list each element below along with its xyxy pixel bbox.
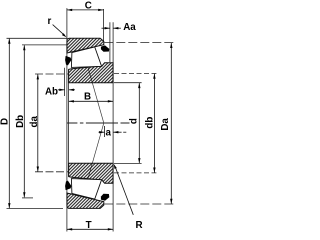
dim Aa (102, 27, 110, 29)
wire: vertical extension line cone front face (Ab/B) (68, 70, 70, 176)
cup upper (outer ring) (67, 38, 104, 53)
wire: Da bottom extension (dash) (104, 203, 173, 205)
wire: D top extension (7, 37, 67, 39)
wire: da top extension (dash) (35, 73, 68, 75)
dim r leader (53, 25, 65, 36)
svg-text:Da: Da (160, 118, 171, 131)
dim B (69, 100, 114, 102)
dim Ab (58, 89, 65, 91)
dim T (67, 228, 113, 230)
svg-text:D: D (0, 118, 11, 125)
cage lower right (black) (101, 194, 109, 201)
wire: db top extension (dash) (114, 72, 156, 74)
svg-text:Aa: Aa (123, 22, 136, 33)
wire: load line upper (83, 49, 104, 123)
dim R leader (115, 167, 133, 215)
wire: d top extension (114, 82, 142, 84)
dim D (8, 39, 10, 209)
roller upper (71, 47, 101, 68)
wire: vertical extension line cup back face / C,T reference (66, 8, 68, 231)
wire: vertical extension line cup front face (C right) (103, 9, 105, 41)
wire: Db top extension (22, 44, 67, 46)
svg-text:B: B (84, 91, 91, 102)
svg-text:T: T (86, 220, 92, 231)
svg-text:r: r (47, 16, 51, 27)
wire: db bottom extension (dash) (114, 172, 156, 174)
cage lower left (black) (65, 181, 71, 191)
cage upper left (black) (65, 56, 71, 66)
svg-text:Ab: Ab (45, 87, 58, 98)
cone upper (inner ring) (69, 63, 114, 83)
svg-text:Db: Db (15, 115, 26, 128)
wire: vertical extension line cone back face (Aa/B/T/a) (112, 22, 114, 231)
dim d (138, 83, 140, 163)
dim da (37, 74, 39, 171)
dim C (67, 9, 104, 11)
wire: Db bottom extension (22, 197, 33, 199)
node: axis centerline (67, 122, 96, 124)
svg-text:R: R (135, 220, 142, 231)
dim db (153, 74, 155, 173)
wire: vertical extension line cage tip left (Ab) (64, 68, 66, 96)
svg-text:d: d (129, 118, 140, 124)
wire: Da top extension (dash) (104, 42, 173, 44)
roller lower (71, 179, 101, 200)
dim a (99, 131, 105, 133)
wire: vertical extension line cage tip right (Aa) (109, 22, 111, 62)
wire: d bottom extension (114, 162, 142, 164)
wire: D bottom extension (7, 208, 64, 210)
svg-text:a: a (105, 128, 111, 139)
dim Db (23, 45, 25, 197)
svg-text:db: db (145, 117, 156, 129)
dim Da (170, 43, 172, 204)
svg-text:C: C (85, 0, 92, 11)
wire: da bottom extension (dash) (35, 171, 68, 173)
wire: load line lower (83, 123, 104, 197)
cup lower (outer ring) (67, 193, 104, 208)
cone lower (inner ring) (69, 163, 114, 183)
svg-text:da: da (29, 116, 40, 128)
cage upper right (black) (101, 45, 109, 51)
